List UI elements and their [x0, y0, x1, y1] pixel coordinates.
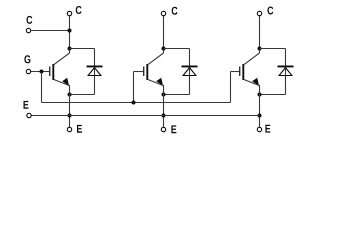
terminal E (left emitter)	[27, 113, 31, 117]
wire diode anode link D3	[260, 94, 286, 96]
wire collector vertical Q3	[259, 16, 261, 53]
wire left C lead	[31, 30, 70, 32]
wire gate bus	[42, 102, 231, 104]
junction emitter/diode D2	[162, 93, 166, 97]
junction emitter bus Q1	[68, 114, 72, 118]
junction emitter/diode D3	[258, 93, 262, 97]
junction collector/diode D3	[258, 47, 262, 51]
wire diode branch top D3	[260, 48, 286, 50]
wire emitter vertical Q1	[69, 85, 71, 127]
wire collector vertical Q1	[69, 16, 71, 53]
terminal C1 (collector)	[67, 11, 71, 15]
terminal G (gate)	[26, 69, 30, 73]
wire gate riser Q1	[41, 72, 43, 103]
diode D2	[182, 66, 198, 68]
wire diode branch top D2	[164, 48, 190, 50]
wire diode cathode riser D1	[94, 49, 96, 66]
wire diode branch top D1	[70, 48, 95, 50]
wire gate lead Q2	[134, 71, 144, 73]
terminal C2 (collector)	[161, 11, 165, 15]
wire diode anode link D1	[70, 94, 95, 96]
terminal E1 (emitter)	[67, 127, 71, 131]
junction emitter bus Q3	[258, 114, 262, 118]
wire diode cathode riser D2	[189, 49, 191, 66]
junction emitter bus Q2	[162, 114, 166, 118]
wire gate lead Q3	[231, 71, 240, 73]
wire collector vertical Q2	[163, 16, 165, 53]
label E2	[171, 125, 176, 133]
junction gate/aux riser	[40, 70, 44, 74]
wire gate lead Q1	[31, 71, 50, 73]
label E1	[77, 125, 82, 133]
label C2	[172, 7, 178, 15]
label C1	[76, 6, 82, 14]
junction gate bus Q2	[132, 101, 136, 105]
diode D1	[87, 66, 103, 68]
label E3	[265, 125, 270, 133]
junction collector/left-C	[68, 29, 72, 33]
transistor Q2 (IGBT)	[143, 67, 144, 77]
wire gate riser Q2	[133, 72, 135, 103]
junction collector/diode D2	[162, 47, 166, 51]
transistor Q3 (IGBT)	[239, 67, 240, 77]
transistor Q1 (IGBT)	[49, 67, 50, 77]
diode D3	[278, 66, 294, 68]
terminal E3 (emitter)	[257, 127, 261, 131]
wire gate riser Q3	[230, 72, 232, 103]
wire diode anode link D2	[164, 94, 190, 96]
label E (left)	[23, 101, 28, 109]
label C (left tap)	[26, 16, 32, 24]
wire emitter vertical Q3	[259, 85, 261, 127]
junction emitter/diode D1	[68, 93, 72, 97]
terminal E2 (emitter)	[161, 127, 165, 131]
terminal C3 (collector)	[257, 11, 261, 15]
label C3	[267, 6, 273, 14]
label G	[24, 55, 30, 63]
wire emitter bus	[31, 115, 259, 117]
junction collector/diode D1	[68, 47, 72, 51]
wire diode cathode riser D3	[285, 49, 287, 66]
wire emitter vertical Q2	[163, 85, 165, 127]
terminal C (left collector tap)	[26, 28, 30, 32]
